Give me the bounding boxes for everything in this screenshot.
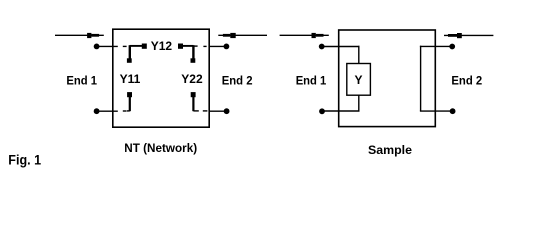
wire: input arrow End 2 (top right, pointing left) [218, 33, 267, 38]
wire: dashed segment inside box (top left) [123, 45, 127, 47]
wire: End 1 upper terminal into box [322, 46, 360, 48]
wire: element Y down to bottom wire [358, 95, 360, 111]
wire: bottom wire to End 2 lower terminal [420, 110, 453, 112]
node: End 1 lower terminal [319, 108, 325, 114]
svg-text:Y: Y [355, 73, 363, 87]
element Y (admittance box) [347, 64, 371, 96]
wire: box edge to End 2 upper terminal [209, 45, 226, 47]
svg-text:End 2: End 2 [222, 74, 253, 88]
node: End 2 lower terminal [450, 108, 456, 114]
node: End 2 upper terminal [449, 44, 455, 50]
arrow: Y12 left-hand arrow (elbow, horizontal pointing right) [130, 44, 147, 49]
arrow: Y11 lower arrow (vertical pointing up) [127, 92, 132, 111]
svg-text:End 2: End 2 [451, 74, 482, 88]
wire: box edge to End 2 lower terminal [209, 110, 227, 112]
wire: dashed segment inside box (bottom right) [203, 110, 208, 112]
wire: dashed segment inside box (top right) [203, 45, 206, 47]
svg-text:Y22: Y22 [181, 72, 203, 86]
wire: input arrow End 2 (top right, pointing left) [444, 33, 493, 38]
wire: End 1 upper terminal to box edge [97, 45, 118, 47]
sample box [339, 30, 436, 127]
svg-text:End 1: End 1 [66, 74, 97, 88]
svg-text:Fig. 1: Fig. 1 [8, 151, 41, 167]
wire: input arrow End 1 (top left, pointing right) [55, 33, 104, 38]
arrow: Y12 right-hand arrow (elbow, horizontal pointing left) [178, 44, 198, 49]
node: End 1 lower terminal [94, 108, 100, 114]
node: End 1 upper terminal [319, 44, 325, 50]
wire: End 2 upper terminal into box [420, 45, 452, 47]
arrow: Y22 upper arrow (vertical pointing down) [191, 45, 196, 63]
node: End 2 lower terminal [224, 108, 230, 114]
wire: bottom wire to End 1 lower terminal [322, 110, 360, 112]
wire: End 1 lower terminal to box edge [97, 110, 118, 112]
svg-text:Y11: Y11 [120, 72, 141, 86]
wire: dashed segment inside box (bottom left) [123, 110, 127, 112]
wire: input arrow End 1 (top left, pointing right) [280, 33, 329, 38]
node: End 1 upper terminal [94, 44, 100, 50]
wire: down to element Y [358, 46, 360, 64]
arrow: Y11 upper arrow (vertical pointing down) [127, 45, 132, 63]
network box NT [113, 29, 209, 127]
svg-text:NT (Network): NT (Network) [124, 141, 197, 155]
svg-text:End 1: End 1 [296, 74, 327, 88]
wire: right inner conductor (vertical) [420, 46, 422, 111]
svg-text:Sample: Sample [368, 143, 412, 157]
node: End 2 upper terminal [224, 44, 230, 50]
arrow: Y22 lower arrow (vertical pointing up) [191, 92, 199, 111]
svg-text:Y12: Y12 [151, 39, 173, 53]
